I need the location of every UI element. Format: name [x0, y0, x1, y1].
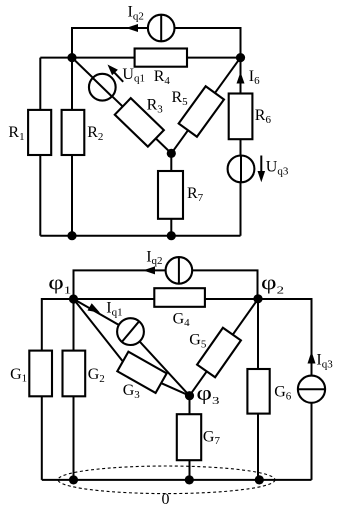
- wire bottom rail ground: [42, 479, 312, 481]
- node phi3: [185, 391, 194, 400]
- resistor R7: [158, 171, 183, 219]
- arrowhead Iq2 bottom pointing left: [143, 266, 155, 274]
- conductance G3: [117, 352, 166, 393]
- node phi2: [253, 294, 262, 303]
- arrowhead I6 pointing up: [237, 72, 245, 84]
- node C center: [167, 149, 176, 158]
- current source Iq2 bottom: [166, 257, 193, 284]
- arrow shaft Uq1: [111, 69, 123, 82]
- arrowhead Iq1 pointing down-right: [88, 303, 101, 313]
- wire diagonal C to B (R5): [171, 58, 240, 154]
- conductance G2: [63, 351, 86, 397]
- wire right branch R6/Uq3: [240, 58, 242, 236]
- conductance G4: [154, 288, 205, 307]
- arrowhead Uq1 pointing up-left: [108, 65, 118, 76]
- resistor R5: [179, 86, 224, 136]
- arrowhead Uq3 pointing down: [258, 171, 266, 182]
- bar of current source Iq2 bottom: [178, 257, 180, 284]
- resistor R3: [115, 98, 164, 146]
- wire R2 branch: [71, 58, 73, 236]
- wire phi2 to phi3 via G5: [190, 299, 259, 396]
- node phi1: [69, 294, 78, 303]
- node ground G6: [255, 475, 264, 484]
- wire Iq2 bottom branch loop: [74, 270, 258, 299]
- wire G6 branch: [257, 299, 259, 480]
- wire right branch Iq3: [258, 299, 312, 480]
- resistor R6: [229, 94, 253, 140]
- bar of current source Iq2 top: [160, 15, 162, 42]
- resistor R1: [28, 110, 51, 155]
- wire Iq2 branch top loop: [72, 28, 241, 58]
- wire rail phi1-phi2: [74, 298, 259, 300]
- conductance G1: [29, 351, 52, 397]
- svg-text:0: 0: [162, 491, 170, 508]
- conductance G6: [247, 369, 269, 414]
- wire left branch R1: [39, 58, 41, 236]
- resistor R2: [62, 110, 85, 155]
- voltage source Uq3: [228, 156, 255, 183]
- wire through voltage source Uq3: [240, 156, 242, 183]
- arrowhead Iq3 pointing up: [308, 351, 316, 363]
- voltage source Uq1: [89, 74, 116, 101]
- wire top rail A-B: [40, 57, 240, 59]
- wire left branch G1: [42, 299, 74, 480]
- current source Iq2 top: [148, 15, 175, 42]
- arrow shaft Uq3: [260, 156, 262, 173]
- bar of current source Iq3: [298, 388, 325, 390]
- node B top-right: [236, 53, 245, 62]
- arrowhead Iq2 top pointing left: [126, 24, 138, 32]
- node D bottom R7: [167, 231, 176, 240]
- ground ellipse node 0: [58, 466, 275, 494]
- node ground G2: [69, 475, 78, 484]
- resistor R4: [135, 49, 187, 67]
- conductance G5: [197, 328, 241, 377]
- current source Iq1: [117, 318, 144, 345]
- wire through voltage source Uq1: [93, 78, 112, 97]
- wire G7 branch: [189, 396, 191, 480]
- wire R7 branch: [170, 153, 172, 235]
- conductance G7: [177, 414, 201, 460]
- node ground G7: [185, 475, 194, 484]
- wire phi1 to phi3 upper via Iq1: [74, 299, 190, 396]
- wire G2 branch: [73, 299, 75, 480]
- current source Iq3: [298, 376, 325, 403]
- wire diagonal A to C (Uq1,R3): [72, 58, 171, 154]
- node A top-left: [67, 53, 76, 62]
- node E bottom R2: [67, 231, 76, 240]
- wire phi1 to phi3 lower via G3: [74, 299, 190, 396]
- bar of current source Iq1: [122, 321, 139, 342]
- wire bottom rail top circuit: [40, 235, 240, 237]
